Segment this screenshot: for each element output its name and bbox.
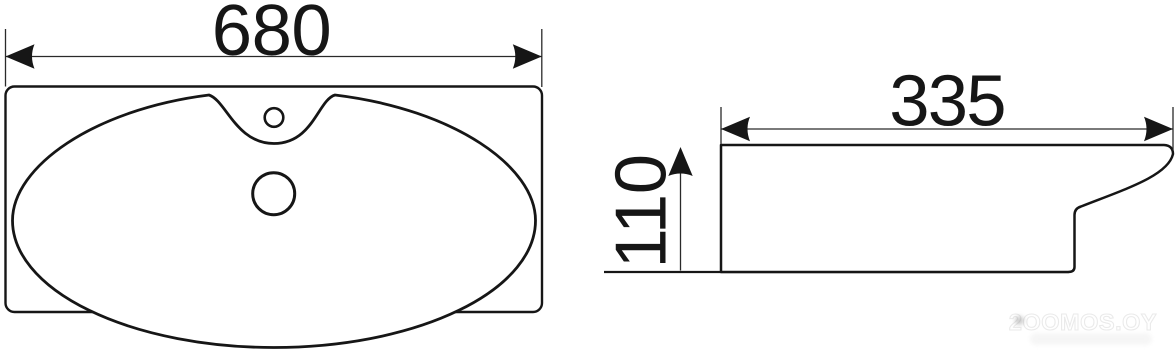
watermark smear band xyxy=(1030,333,1152,345)
dimension line 335 xyxy=(721,128,1173,130)
svg-text:680: 680 xyxy=(212,0,331,71)
svg-text:110: 110 xyxy=(600,154,681,268)
drain hole xyxy=(253,173,295,215)
side profile outline xyxy=(721,145,1173,272)
extension line left (335) xyxy=(720,107,722,144)
arrowhead right of 680 xyxy=(513,44,542,68)
svg-text:2OOMOS.OY: 2OOMOS.OY xyxy=(1009,309,1157,335)
extension line left (680) xyxy=(5,29,7,87)
extension line right (335) xyxy=(1172,107,1174,150)
basin oval outline with faucet-deck notch xyxy=(13,95,536,348)
arrowhead right of 335 xyxy=(1144,117,1173,141)
ground line (side view) xyxy=(604,271,1069,273)
arrowhead left of 680 xyxy=(6,44,35,68)
countertop rectangle (top view) xyxy=(6,87,543,313)
height arrowhead up (110) xyxy=(668,147,692,176)
svg-text:335: 335 xyxy=(889,61,1005,142)
extension line right (680) xyxy=(541,29,543,87)
faucet hole xyxy=(265,108,284,127)
watermark blob xyxy=(1015,316,1024,325)
dimension line 680 xyxy=(6,56,542,58)
height arrow shaft (110) xyxy=(680,172,682,271)
arrowhead left of 335 xyxy=(721,117,750,141)
